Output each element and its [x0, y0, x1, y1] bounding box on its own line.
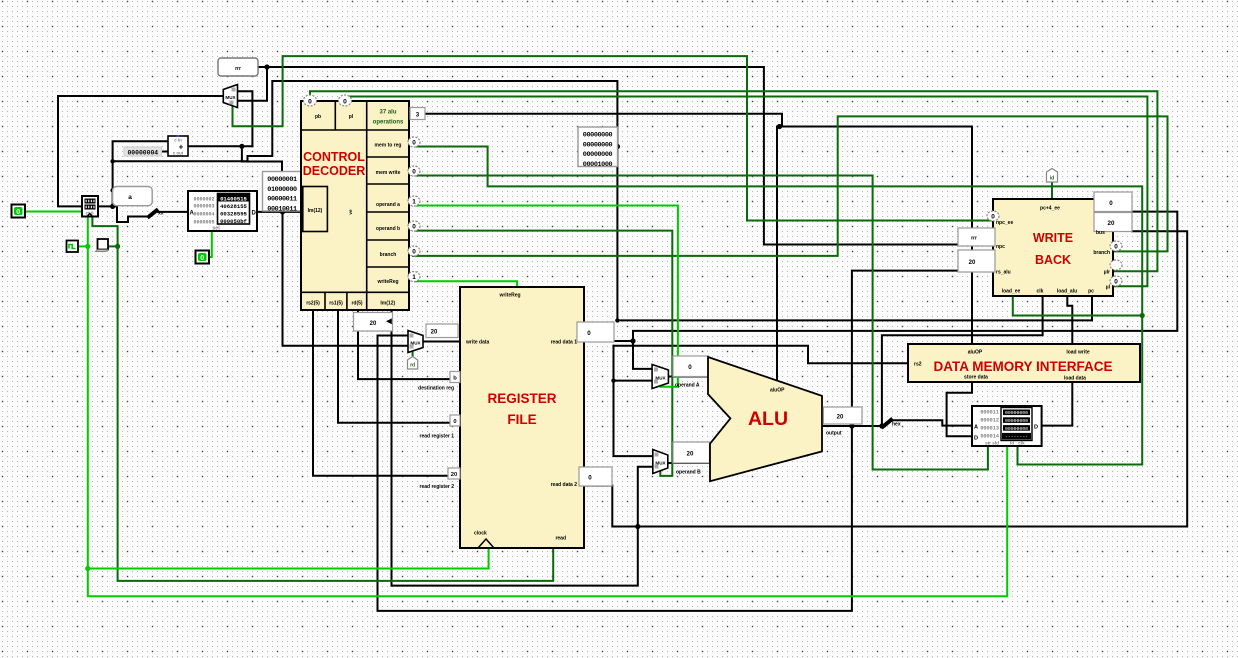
wire branch to regfile clock wedge [88, 546, 489, 569]
svg-text:hex: hex [892, 422, 901, 428]
node ROM D / decoder [299, 209, 304, 214]
value box 0 (read reg 1) [450, 415, 460, 426]
wire decoder pb oval to WB jalr [310, 91, 1157, 271]
wire aluOP down to ALU select pin [776, 127, 778, 382]
svg-text:00000001: 00000001 [267, 176, 297, 184]
value box 3 (alu op width) [410, 108, 425, 120]
RAM (data memory) [972, 406, 1042, 446]
svg-text:A: A [974, 425, 978, 431]
wire decoder rs2 to regfile read register 2 [313, 310, 460, 476]
node button join [115, 244, 120, 249]
value box 0 (operand A) [673, 356, 709, 377]
svg-text:writeReg: writeReg [498, 293, 520, 299]
svg-text:0: 0 [1114, 279, 1118, 286]
svg-text:Im(12): Im(12) [308, 208, 323, 214]
svg-text:MUX: MUX [655, 461, 666, 466]
node a-box pin [110, 188, 114, 192]
wire pc loop from writeback: y=161 west end [113, 81, 1092, 320]
probe oval mem write [408, 166, 420, 176]
wire clock net: counter down, clock branch, regfile clock, RAM clk [88, 217, 1007, 597]
svg-text:mem to reg: mem to reg [375, 143, 402, 149]
svg-text:sel: sel [212, 226, 220, 232]
wire clock output [78, 245, 88, 247]
wire ALU output east [822, 425, 882, 427]
svg-text:20: 20 [431, 330, 438, 336]
svg-text:00328595: 00328595 [220, 210, 247, 217]
svg-text:0: 0 [453, 419, 456, 425]
svg-text:load data: load data [1064, 376, 1086, 382]
svg-text:0: 0 [412, 249, 416, 256]
probe oval pl [339, 95, 352, 106]
svg-text:clk: clk [1018, 441, 1025, 446]
svg-text:operations: operations [373, 120, 404, 126]
svg-text:--------: -------- [1005, 435, 1028, 440]
value box 20 (write data) [426, 324, 458, 338]
node pc/counter corner [110, 204, 115, 209]
probe a (pc value box) [113, 187, 153, 206]
counter (program counter) [82, 196, 98, 217]
node read data 2 loop [635, 524, 640, 529]
probe oval jalr (WB) [1110, 260, 1122, 270]
svg-text:01000000: 01000000 [267, 186, 297, 194]
svg-text:01400515: 01400515 [220, 195, 247, 202]
svg-text:0: 0 [200, 255, 204, 262]
svg-text:0: 0 [1109, 200, 1113, 207]
svg-text:a: a [128, 194, 132, 201]
svg-text:writeReg: writeReg [376, 279, 398, 285]
value box 20 (WB bus) [1094, 213, 1132, 232]
svg-text:000050bf: 000050bf [220, 218, 247, 225]
value box 20 (ALU output) [823, 407, 862, 424]
svg-text:Im(12): Im(12) [380, 301, 395, 307]
value box 0 (WB top right) [1094, 192, 1132, 212]
WRITE BACK U5 [993, 199, 1113, 296]
binary display 2 [578, 127, 618, 169]
svg-text:output: output [826, 431, 842, 437]
CONTROL DECODER U1 [301, 101, 409, 310]
svg-text:npc: npc [996, 244, 1005, 250]
svg-text:20: 20 [451, 472, 457, 478]
svg-text:rrr: rrr [971, 236, 977, 242]
svg-text:00000000: 00000000 [1005, 418, 1028, 424]
svg-text:MUX: MUX [225, 95, 236, 100]
probe oval operand b [408, 221, 420, 231]
value box 20 (Im) [354, 313, 393, 332]
wire ROM data D to decoder input [257, 211, 302, 213]
svg-text:000013: 000013 [980, 426, 999, 432]
input pin D2 (ROM sel) [196, 251, 210, 264]
wire ALU output up to WB clk [882, 296, 1043, 426]
svg-text:D: D [252, 211, 257, 217]
value box 0 (read data 1) [577, 322, 614, 342]
probe oval branch (WB) [1110, 241, 1122, 251]
svg-text:20: 20 [1108, 220, 1115, 227]
svg-text:clk: clk [1037, 289, 1044, 295]
wire rs2 net vertical to mux B input 0 [614, 346, 653, 456]
svg-text:ld: ld [1010, 441, 1014, 446]
tunnel id [1047, 169, 1058, 183]
value box 20 (read reg 2) [448, 468, 460, 479]
svg-text:store data: store data [964, 375, 988, 381]
wire mux A output to ALU operand A [668, 376, 708, 378]
wire MUX M1 input 0 from adder output [238, 91, 253, 146]
mux B operand B (facing east) [653, 450, 668, 474]
value box 20 (rs_alu) [958, 250, 995, 272]
svg-text:aluOP: aluOP [770, 388, 785, 394]
svg-text:operand B: operand B [676, 470, 701, 476]
svg-text:000011: 000011 [980, 410, 999, 416]
svg-text:BACK: BACK [1035, 253, 1071, 267]
svg-text:1: 1 [412, 274, 416, 281]
svg-text:load_ee: load_ee [1002, 289, 1021, 295]
wire tunnel rrr1 output to WB npc (long top line, down right side) [258, 67, 958, 245]
svg-text:20: 20 [969, 260, 976, 266]
svg-text:DECODER: DECODER [303, 164, 366, 178]
wire ROM sel to pin [209, 231, 212, 257]
node load_ee green [1140, 313, 1145, 318]
svg-text:rrr: rrr [235, 66, 241, 72]
wire write-mux input1 from display column [283, 212, 409, 346]
mux M1 (pc source mux, facing west) [223, 85, 237, 108]
probe oval npc_ee [987, 211, 999, 221]
wire button/counter net to regfile read [92, 217, 553, 581]
probe oval mem to reg [408, 137, 420, 147]
wire read data 1 down to mux A input 0 [633, 341, 652, 369]
wire pc vertical along a-box / adder input A [113, 141, 168, 206]
svg-text:0: 0 [308, 98, 312, 105]
svg-text:0000002: 0000002 [193, 197, 214, 203]
svg-text:write data: write data [465, 340, 490, 346]
svg-text:aluOP: aluOP [968, 350, 983, 356]
svg-text:0: 0 [412, 224, 416, 231]
wire decoder Im(12) down to read-data-2 net [391, 310, 393, 586]
svg-text:id: id [1050, 176, 1054, 182]
wire decoder operand-b to mux B select [415, 231, 672, 476]
wire register 00000004 to adder B [162, 151, 169, 153]
mux M2 write data (facing east) [408, 331, 423, 353]
wire counter output to node at a-box corner [98, 205, 113, 207]
wire decoder rs1 to regfile read register 1 [338, 310, 460, 423]
probe oval writeReg [408, 272, 420, 282]
svg-text:str sld: str sld [985, 441, 999, 446]
wire DMI load data to RAM D right [1042, 382, 1073, 426]
svg-text:00000000: 00000000 [583, 132, 613, 140]
button [96, 239, 109, 252]
node display2 tap [615, 144, 620, 149]
svg-text:00000000: 00000000 [1005, 426, 1028, 432]
svg-text:MUX: MUX [655, 376, 666, 381]
svg-text:ALU: ALU [748, 408, 788, 430]
wire rs2 net to DMI [614, 346, 909, 364]
ALU U3 [708, 357, 822, 481]
wire decoder mem-write to RAM str [415, 176, 988, 470]
node mux A in1 tap [611, 378, 615, 382]
wire write-mux input0 from ALU result (bottom long loop) [378, 271, 959, 611]
wire MUX M1 select loop to WB npc_ee [233, 56, 994, 220]
svg-text:D: D [974, 436, 978, 442]
svg-text:0: 0 [588, 475, 592, 482]
probe oval jal (WB) [1110, 276, 1122, 286]
svg-text:pb: pb [315, 114, 321, 120]
svg-text:00000000: 00000000 [583, 141, 613, 149]
svg-text:rs2(5): rs2(5) [306, 301, 320, 307]
svg-text:rs2: rs2 [914, 362, 922, 368]
wire MUX M1 output to counter input [58, 96, 223, 206]
svg-text:read: read [555, 536, 566, 542]
svg-text:rs1(5): rs1(5) [329, 301, 343, 307]
wire decoder pl oval to WB jal [345, 97, 1147, 287]
svg-text:load write: load write [1066, 350, 1090, 356]
value box b (destination) [450, 372, 460, 383]
node y126 [777, 124, 782, 129]
svg-text:read register 2: read register 2 [420, 484, 455, 490]
svg-text:WRITE: WRITE [1033, 231, 1073, 245]
svg-text:mem write: mem write [376, 170, 401, 176]
node pc line tap [615, 318, 619, 322]
node display column tap [280, 209, 285, 214]
wire input pin D1 to counter [23, 211, 82, 213]
svg-text:00000000: 00000000 [583, 151, 613, 159]
svg-text:b: b [453, 376, 457, 382]
mux A operand A (facing east) [652, 365, 668, 389]
svg-text:branch: branch [1093, 250, 1110, 256]
wire read data 1 out [584, 340, 633, 342]
node adder out [239, 144, 244, 149]
svg-text:pl: pl [349, 114, 354, 120]
binary display 1 (instruction bits) [263, 172, 303, 214]
svg-text:3: 3 [416, 111, 420, 118]
wire decoder writeReg to regfile top [415, 281, 517, 287]
wire decoder branch to WB branch [413, 116, 1168, 256]
svg-text:20: 20 [687, 451, 694, 458]
svg-text:xx: xx [158, 211, 164, 217]
register probe 00000004 [124, 147, 162, 156]
wire decoder mem-to-reg to RAM ld [415, 147, 1142, 465]
node rrr fanout [264, 64, 269, 69]
svg-text:00010011: 00010011 [267, 205, 297, 213]
tunnel rd [408, 357, 418, 370]
wire button output [108, 245, 118, 247]
svg-text:c out: c out [173, 151, 184, 156]
svg-text:D: D [1034, 425, 1038, 431]
svg-text:rs_alu: rs_alu [996, 270, 1011, 276]
svg-text:0: 0 [587, 330, 591, 337]
value box 0 (read data 2) [579, 467, 612, 486]
node read data 1 [630, 338, 635, 343]
svg-text:00000000: 00000000 [1005, 410, 1028, 416]
wire decoder operand-a to mux A select [415, 206, 678, 387]
svg-text:0: 0 [412, 140, 416, 147]
DATA MEMORY INTERFACE U4 [908, 344, 1140, 382]
svg-text:destination reg: destination reg [418, 386, 454, 392]
svg-text:0: 0 [16, 209, 20, 216]
svg-text:bus: bus [1096, 230, 1105, 236]
REGISTER FILE U2 [460, 287, 584, 548]
svg-text:µl: µl [1106, 285, 1111, 291]
tunnel rrr2 (npc) [958, 228, 995, 246]
probe oval operand a [408, 196, 420, 206]
wire WB load_alu to DMI load write [1067, 296, 1072, 344]
svg-text:rd: rd [410, 363, 415, 369]
svg-text:0: 0 [412, 169, 416, 176]
svg-text:0000003: 0000003 [193, 204, 214, 210]
svg-text:00000011: 00000011 [267, 196, 297, 204]
wire branch to mux A input 1 [614, 380, 653, 382]
input pin D1 [12, 205, 26, 218]
svg-text:0: 0 [1114, 244, 1118, 251]
svg-text:00000004: 00000004 [127, 149, 158, 156]
splitter diag hex [883, 420, 891, 427]
svg-text:000014: 000014 [980, 434, 999, 440]
wire rrr branch down into MUX M1 input 1 [238, 67, 268, 101]
wire DMI store data to RAM D [947, 382, 972, 436]
svg-text:clock: clock [474, 531, 487, 537]
wire read data 2 out to WB bus box (bottom-right loop) [584, 231, 1187, 526]
svg-text:20: 20 [370, 321, 377, 327]
svg-text:0000004: 0000004 [193, 212, 214, 218]
wire hex splitter to RAM address A [891, 420, 972, 425]
svg-text:40628155: 40628155 [220, 203, 247, 210]
splitter diag at ROM A [149, 211, 157, 217]
svg-text:20: 20 [837, 415, 844, 421]
svg-text:000012: 000012 [980, 418, 999, 424]
svg-text:µlr: µlr [1104, 270, 1110, 276]
svg-text:0: 0 [343, 98, 347, 105]
adder (c in / + / c out) [168, 135, 188, 156]
node pc y161 [110, 159, 114, 163]
svg-text:pc: pc [1088, 289, 1094, 295]
wire 3-box (alu op) to DMI aluOP [425, 114, 782, 127]
node ALU out / clk vertical [879, 423, 884, 428]
node ALU out / rs_alu vertical [849, 423, 854, 428]
svg-text:pc+4_ee: pc+4_ee [1040, 206, 1060, 212]
wire decoder rd to regfile destination reg [358, 310, 460, 379]
wire write-mux output to regfile write data [423, 341, 460, 343]
svg-text:1: 1 [412, 199, 416, 206]
svg-text:00001000: 00001000 [583, 161, 613, 169]
svg-text:MUX: MUX [410, 341, 421, 346]
svg-text:read register 1: read register 1 [420, 434, 455, 440]
node clock regfile branch [85, 566, 90, 571]
svg-text:operand b: operand b [376, 226, 400, 232]
svg-text:37 alu: 37 alu [379, 110, 396, 116]
svg-text:npc_ee: npc_ee [996, 220, 1013, 226]
wire adder out branch down to display1 top [242, 146, 282, 172]
svg-text:FILE: FILE [507, 412, 536, 427]
wire read data 1 up to WB 0-box line [633, 212, 1177, 341]
ROM (instruction memory) [188, 191, 257, 232]
tunnel rrr (top left) [218, 58, 258, 76]
svg-text:ve: ve [348, 209, 353, 215]
svg-text:DATA MEMORY INTERFACE: DATA MEMORY INTERFACE [933, 359, 1112, 374]
value box 20 (operand B) [673, 442, 710, 463]
svg-text:rd(5): rd(5) [351, 301, 362, 307]
wire id tunnel to WB pc+4_ee [1051, 182, 1053, 199]
svg-text:read data 2: read data 2 [551, 482, 578, 488]
svg-text:load_alu: load_alu [1057, 289, 1077, 295]
wire mux B output to ALU operand B [668, 462, 710, 464]
svg-text:operand a: operand a [376, 202, 400, 208]
svg-text:operand A: operand A [675, 383, 700, 389]
node clock join [85, 244, 90, 249]
wire staircase from pc node to ROM address A [113, 206, 188, 222]
svg-text:CONTROL: CONTROL [303, 150, 365, 164]
wire adder output [188, 145, 252, 147]
wire rd tunnel to write-mux select [412, 351, 414, 357]
svg-text:read data 1: read data 1 [551, 340, 578, 346]
svg-text:0: 0 [991, 214, 995, 221]
probe oval branch [408, 246, 420, 256]
wire WB load_ee join [1013, 296, 1142, 316]
wire read data 2 loop up to mux B input 1 [392, 467, 653, 586]
svg-text:0: 0 [688, 364, 692, 371]
clock [67, 241, 79, 253]
svg-text:branch: branch [380, 252, 397, 258]
probe oval pb [304, 95, 317, 106]
svg-text:REGISTER: REGISTER [487, 391, 556, 406]
